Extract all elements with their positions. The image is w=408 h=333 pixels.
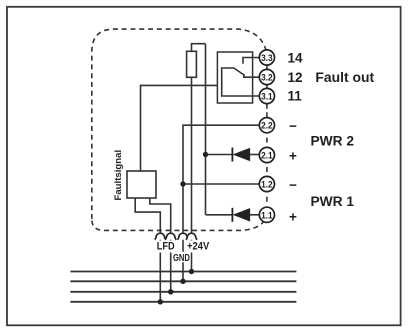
wire +24V internal rail	[205, 44, 207, 215]
junction bus L4	[158, 299, 163, 304]
svg-text:14: 14	[288, 51, 304, 66]
svg-text:12: 12	[288, 70, 303, 85]
svg-text:2.1: 2.1	[261, 151, 273, 161]
dashed link 1.2-1.1	[266, 197, 268, 202]
dashed link 3.1-2.2	[266, 104, 268, 117]
svg-text:+: +	[289, 210, 297, 225]
svg-text:3.1: 3.1	[261, 92, 273, 102]
dashed device boundary	[92, 29, 267, 219]
wire diode D2 to terminal 2.1	[250, 154, 260, 156]
relay contact tip tick	[243, 74, 245, 78]
svg-text:Faultsignal: Faultsignal	[113, 150, 124, 201]
wire to diode D1	[206, 214, 233, 216]
svg-text:11: 11	[288, 89, 303, 104]
Faultsignal block	[127, 171, 156, 198]
svg-text:+: +	[289, 148, 297, 163]
svg-text:3.2: 3.2	[261, 73, 273, 83]
diode D1	[232, 208, 250, 222]
relay contact arm from 3.1	[222, 68, 260, 96]
clamp contact LFD 1	[155, 233, 166, 240]
svg-text:−: −	[289, 118, 297, 133]
svg-text:PWR 1: PWR 1	[311, 194, 355, 209]
wire Faultsignal to LFD clamp 2	[150, 198, 171, 233]
relay contact stub 3.2	[243, 76, 259, 78]
relay contact box	[217, 52, 252, 103]
dashed device boundary bottom	[92, 212, 267, 230]
junction bus L2	[180, 279, 185, 284]
wire relay drive horizontal	[141, 84, 218, 86]
svg-text:GND: GND	[173, 253, 190, 264]
junction GND/1.2	[180, 181, 185, 186]
wire terminal 2.2 to GND rail	[183, 125, 260, 233]
junction bus L1	[189, 269, 194, 274]
wire terminal 1.2	[183, 183, 260, 185]
dashed link 3.3-3.2	[266, 66, 268, 69]
terminal 3.2	[259, 69, 274, 84]
junction +24V/D2	[203, 152, 208, 157]
svg-text:−: −	[289, 178, 297, 193]
svg-text:3.3: 3.3	[261, 53, 273, 63]
diode D2	[232, 148, 250, 162]
wire Faultsignal to LFD clamp 1	[135, 198, 160, 233]
relay NO contact to 3.3	[243, 58, 260, 64]
label GND	[173, 252, 191, 264]
label LFD	[155, 241, 177, 253]
svg-text:LFD: LFD	[157, 241, 175, 253]
bus line L3	[70, 291, 296, 293]
dashed link 2.1-1.2	[266, 167, 268, 172]
clamp contact GND	[177, 233, 188, 240]
svg-text:1.1: 1.1	[261, 210, 273, 220]
clamp contact LFD 2	[165, 233, 176, 240]
wire LFD clamp 1 to bus L4	[159, 238, 161, 302]
dashed link 3.2-3.1	[266, 85, 268, 88]
clamp contact +24V	[186, 233, 197, 240]
terminal 1.1	[259, 207, 274, 222]
wire resistor top jog	[192, 44, 206, 52]
wire to diode D2	[206, 154, 233, 156]
wire +24V clamp to bus L1	[191, 238, 193, 272]
terminal 2.2	[259, 118, 274, 133]
terminal 1.2	[259, 176, 274, 191]
svg-text:Fault out: Fault out	[315, 70, 374, 85]
junction bus L3	[168, 289, 173, 294]
wire GND clamp to bus L2	[182, 238, 184, 281]
wire LFD clamp 2 to bus L3	[170, 238, 172, 292]
terminal 2.1	[259, 147, 274, 162]
resistor R	[187, 51, 197, 77]
label +24V	[186, 241, 211, 253]
wire resistor to +24V clamp	[191, 77, 193, 233]
terminal 3.3	[259, 50, 274, 65]
terminal 3.1	[259, 88, 274, 103]
svg-text:1.2: 1.2	[261, 180, 273, 190]
wire to Faultsignal block	[140, 85, 142, 171]
dashed link 2.2-2.1	[266, 138, 268, 143]
wire diode D1 to terminal 1.1	[250, 214, 260, 216]
svg-text:2.2: 2.2	[261, 121, 273, 131]
bus line L4	[70, 301, 296, 303]
svg-text:+24V: +24V	[187, 241, 210, 253]
svg-text:PWR 2: PWR 2	[311, 134, 355, 149]
bus line L1	[70, 271, 296, 273]
bus line L2	[70, 280, 296, 282]
